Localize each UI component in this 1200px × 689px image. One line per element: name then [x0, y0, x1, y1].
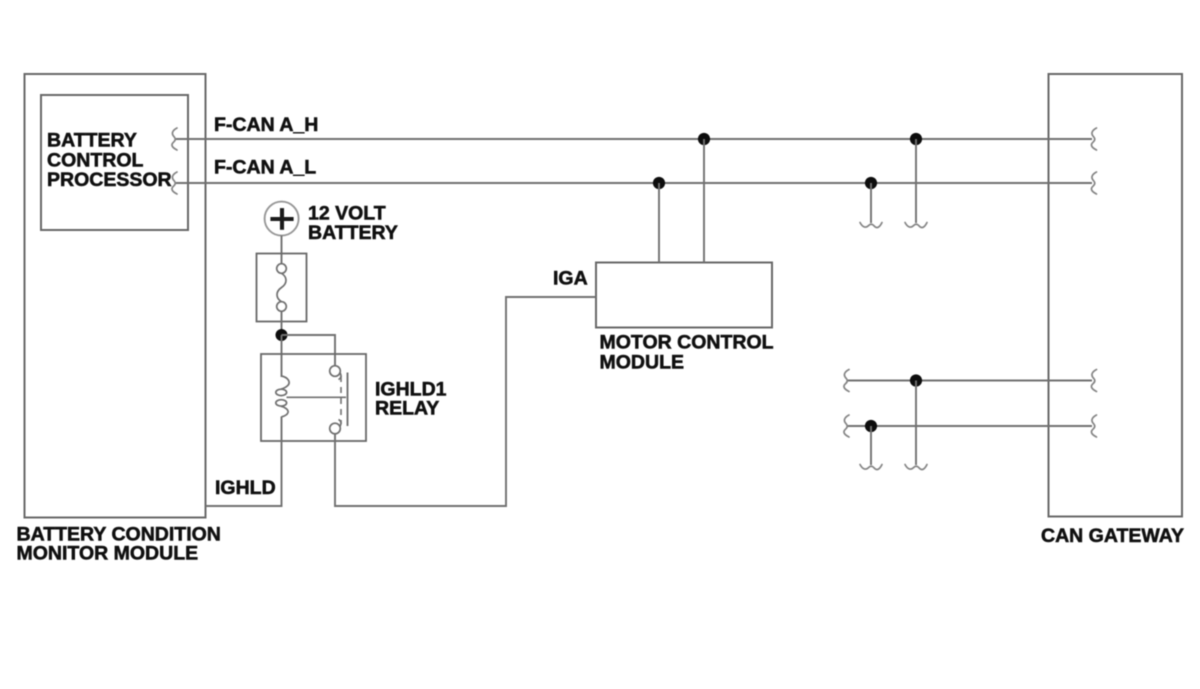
connector pin at battery control processor F-CAN A_H [172, 128, 177, 150]
label BATTERY CONDITION MONITOR MODULE [17, 524, 221, 565]
node junction dot on F-CAN A_H at motor control drop [698, 133, 710, 145]
svg-text:MOTOR CONTROL: MOTOR CONTROL [600, 332, 774, 354]
fuse F1 element [277, 264, 287, 312]
connector hook at bottom of A_L stub [860, 223, 882, 228]
connector pin at CAN gateway F-CAN A_H [1091, 128, 1096, 150]
label 12 VOLT BATTERY [308, 203, 398, 245]
wire stub from lower right bus down to connector [870, 426, 872, 465]
svg-text:RELAY: RELAY [375, 398, 439, 420]
wire drop F-CAN A_H to motor control module [703, 139, 705, 263]
wire stub from upper right bus down to connector [915, 381, 917, 466]
svg-text:BATTERY: BATTERY [47, 129, 137, 151]
connector pin at CAN gateway lower right bus [1091, 415, 1096, 437]
wire junction down to relay coil [281, 335, 283, 377]
module box: BATTERY CONDITION MONITOR MODULE [25, 74, 206, 518]
wire relay switch to IGA pin of motor control module [335, 297, 596, 506]
relay contact bar [347, 373, 349, 427]
module box: MOTOR CONTROL MODULE [596, 263, 772, 328]
wire relay coil to IGHLD pin [206, 417, 282, 507]
connector hook at bottom of A_H stub [905, 223, 927, 228]
wire fuse to junction [281, 311, 283, 335]
label BATTERY CONTROL PROCESSOR [47, 129, 172, 191]
connector pin left end of upper right bus [844, 370, 849, 392]
node junction dot on F-CAN A_L at stub x=871 [865, 177, 877, 189]
wire stub from F-CAN A_L down to connector [870, 183, 872, 223]
svg-text:MODULE: MODULE [600, 352, 685, 374]
fuse F1 box [257, 254, 307, 322]
label MOTOR CONTROL MODULE [600, 332, 774, 374]
module box: CAN GATEWAY [1049, 74, 1183, 517]
svg-text:MONITOR MODULE: MONITOR MODULE [17, 543, 199, 565]
svg-text:CAN GATEWAY: CAN GATEWAY [1041, 525, 1184, 547]
battery B1: 12 VOLT BATTERY symbol [265, 202, 299, 236]
svg-text:IGHLD: IGHLD [215, 477, 276, 499]
connector hook at bottom of upper right stub [905, 465, 927, 470]
svg-text:IGA: IGA [553, 268, 588, 290]
relay top contact circle [330, 366, 341, 380]
wire F-CAN A_L [176, 182, 1092, 184]
node junction dot on lower right bus [865, 420, 877, 432]
connector pin at CAN gateway F-CAN A_L [1091, 172, 1096, 194]
sub-module box: BATTERY CONTROL PROCESSOR [41, 95, 188, 230]
relay coil L [276, 376, 289, 417]
label IGHLD1 RELAY [375, 379, 447, 420]
node junction dot on F-CAN A_L at motor control drop [653, 177, 665, 189]
svg-text:F-CAN A_H: F-CAN A_H [214, 114, 318, 136]
wire F-CAN A_H [176, 138, 1092, 140]
wire junction to relay switch contact [282, 335, 336, 366]
relay K1 box: IGHLD1 RELAY [261, 354, 366, 441]
svg-text:F-CAN A_L: F-CAN A_L [214, 157, 316, 179]
connector pin left end of lower right bus [844, 415, 849, 437]
node junction dot on F-CAN A_H at stub x=916 [910, 133, 922, 145]
wire drop F-CAN A_L to motor control module [658, 183, 660, 263]
wire right bus upper [848, 380, 1092, 382]
connector hook at bottom of lower right stub [860, 465, 882, 470]
wire battery to fuse [281, 236, 283, 264]
node junction dot below fuse [276, 329, 288, 341]
wire stub from F-CAN A_H down to connector [915, 139, 917, 223]
relay bottom contact circle [330, 420, 341, 434]
svg-text:BATTERY: BATTERY [308, 222, 398, 244]
connector pin at battery control processor F-CAN A_L [172, 172, 177, 194]
node junction dot on upper right bus [910, 374, 922, 386]
relay armature dashed line [340, 376, 342, 424]
svg-text:CONTROL: CONTROL [47, 149, 143, 171]
wire right bus lower [848, 425, 1092, 427]
relay armature link line [287, 396, 347, 398]
connector pin at CAN gateway upper right bus [1091, 370, 1096, 392]
svg-text:PROCESSOR: PROCESSOR [47, 169, 172, 191]
